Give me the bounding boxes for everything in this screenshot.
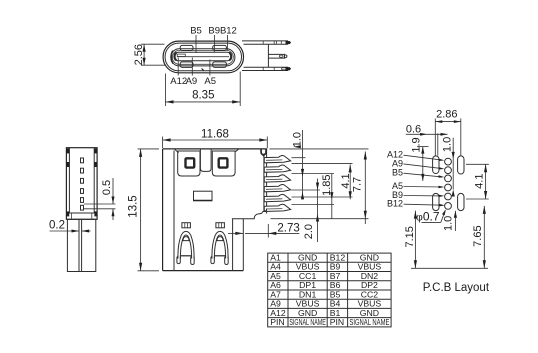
shell bottom rim [66,212,97,214]
pcb ext y199 [466,198,489,200]
ext line y190 [292,189,321,191]
svg-text:0.6: 0.6 [406,124,421,136]
mating slot outer [171,49,235,66]
dim 2.86 ext left [434,119,436,156]
svg-text:2.73: 2.73 [277,223,299,235]
right leg outer [212,231,228,258]
svg-text:7.15: 7.15 [404,226,416,247]
pad bottom-left [180,62,193,68]
top rail ticks [262,41,264,44]
dim 0.6 line [406,133,448,135]
ext line y163.4 [292,162,353,164]
dim 2.56 extension lines [141,43,165,45]
ext line y197 [292,196,353,198]
left flange square hole [186,158,195,167]
svg-text:2.86: 2.86 [436,108,457,120]
row line 3 [268,280,391,282]
shell inner wall left [68,148,70,213]
svg-text:B12: B12 [220,26,237,37]
svg-text:4.1: 4.1 [474,174,486,189]
body left edge [162,149,164,271]
dim 13.5 extension lines [138,148,160,150]
col line 1 [287,253,289,327]
row line 5 [268,298,391,300]
dim 8.35 line [166,101,241,103]
pad top-left [180,45,193,50]
crimp mark low-left [67,211,70,216]
dim 0.5 extension lines [84,203,116,205]
finger 3 [264,175,290,182]
dim 11.68 extension lines [162,137,164,149]
tongue left dark cap [175,53,177,60]
left leg outer [178,231,194,258]
tongue [174,52,231,61]
right leg crossbar [215,255,226,257]
finger 1 [264,156,290,163]
dim 2.73 line [245,232,299,234]
pcb bottom line [411,267,488,269]
slot 4 [81,189,84,194]
svg-text:PIN: PIN [330,317,344,327]
svg-text:A5: A5 [204,76,216,87]
hole A12 [445,158,452,165]
svg-text:1.0: 1.0 [291,132,303,147]
crimp mark top-right [94,148,97,153]
svg-text:0.5: 0.5 [101,180,113,195]
top corner tab [261,150,266,156]
inner left wall [173,151,175,271]
center pin line right [81,219,83,271]
slot 2 [81,168,84,173]
bottom right column left edge [232,219,234,271]
ext line y173.5 [292,173,335,175]
dim 1.0 underline arrow [293,145,301,148]
slot pad upper-left [433,156,439,174]
dim 1.9 ext [417,146,429,148]
vline x302.5 [302,130,304,198]
svg-text:7.7: 7.7 [352,177,364,192]
row line 1 [268,261,391,263]
dim 8.35 extension lines [165,74,167,107]
svg-text:B9: B9 [208,26,220,37]
dim 4.1 pcb line [485,164,487,199]
shell bottom seam mark [202,69,204,71]
bottom rail tip [286,67,292,71]
row line 7 [268,317,391,319]
shell outline [66,148,97,220]
left leg dome [183,237,189,241]
ext line y204.5 [292,204,335,206]
dim 1.0 top line [452,138,454,190]
right leg left foot [211,257,214,264]
pad bottom-right [213,62,227,68]
top rail tip [286,41,292,45]
finger 2 [264,165,290,172]
tongue mid line [177,56,229,58]
crimp mark mid-left [67,162,70,167]
leader B9 [404,195,443,197]
connector shell outer stadium [163,41,243,73]
dim 1.9 line [422,147,424,181]
crimp mark low-right [94,211,97,216]
middle tab [200,150,211,172]
dim 2.86 line [435,121,461,123]
hole A5 [445,184,452,191]
finger 4 [264,185,290,192]
cell rect above left leg [182,223,191,228]
svg-text:A9: A9 [186,76,198,87]
finger 5 [264,194,290,201]
slot 1 [81,158,84,163]
top rail [242,40,288,42]
svg-text:11.68: 11.68 [201,128,229,140]
row line 4 [268,289,391,291]
staircase step [232,209,267,219]
right flange [212,151,235,176]
leader B12 [404,204,443,205]
shell inner wall right [93,148,95,213]
ext line y218.7 [271,218,369,220]
dim 2.86 ext right [460,119,462,156]
vline x350.2 (4.1) [349,164,351,199]
dim phi0.7 leader [441,211,446,223]
col line 2 [326,253,328,327]
leader A9 [404,164,443,169]
dim 7.65 line [483,206,485,268]
svg-text:P.C.B Layout: P.C.B Layout [423,282,490,294]
body end cap line [267,44,269,67]
dim 7.15 line [414,211,416,269]
table frame [268,253,391,327]
svg-text:7.65: 7.65 [472,225,484,246]
svg-text:2.56: 2.56 [133,44,145,65]
svg-text:2.0: 2.0 [303,224,315,239]
hole B12 [445,203,452,210]
slot pad upper-right [458,156,464,174]
leader A9 [191,58,193,76]
svg-text:B5: B5 [392,168,403,178]
left leg right foot [191,257,195,265]
slot 3 [81,178,84,183]
crimp mark top-left [67,148,70,153]
bottom rail ticks [262,67,264,70]
bottom rail hole [281,68,286,70]
dim 11.68 line [163,139,268,141]
vline x363.5 (7.7) [364,152,366,225]
dim 1.0 bottom line [454,211,456,231]
leader A5 [209,60,211,76]
slot 6 [81,205,84,210]
hole A9 [445,167,452,174]
hole B9 [445,193,452,200]
left leg crossbar [181,255,192,257]
top-left chamfer [175,150,179,153]
right leg dome [217,237,223,241]
svg-text:8.35: 8.35 [192,90,214,102]
hole B5 [445,175,452,182]
dim 0.5 line with outside arrows [112,178,114,204]
tongue left pad [177,54,185,56]
vline x317.5 [317,179,319,243]
dim 2.86 ext left2 [437,133,439,155]
right wall inner [263,154,265,213]
pad top-right [213,45,227,50]
slot left dark cap [171,51,173,64]
plastic body [67,219,95,271]
crimp mark mid-right [94,162,97,167]
leader A12 [177,58,179,76]
dim 0.2 line [50,230,80,232]
svg-text:SIGNAL NAME: SIGNAL NAME [289,317,326,327]
top-right chamfer [235,149,238,152]
left leg left foot [177,257,180,264]
leader B5 [195,35,197,53]
body bottom edge [163,270,244,272]
rim ticks [71,214,73,219]
svg-text:SIGNAL NAME: SIGNAL NAME [349,317,389,327]
col line 3 [347,253,349,327]
middle small rect [194,191,213,201]
leader A12 [404,155,443,160]
svg-text:B12: B12 [387,199,403,209]
svg-text:φ0.7: φ0.7 [416,210,440,224]
svg-text:1.0: 1.0 [442,216,454,231]
dim phi0.7 underline [422,221,441,223]
middle pin [268,53,284,55]
slot pad lower-left [433,193,439,210]
row line 6 [268,307,391,309]
svg-text:B5: B5 [190,26,202,37]
right leg right foot [225,257,229,265]
vline x331.8 [331,174,333,219]
right flange square hole [219,158,228,167]
leader B9 [213,35,215,53]
dim 2.56 line [143,44,145,65]
bottom right column right edge [242,219,244,271]
row line 2 [268,271,391,273]
slot 5 [81,198,84,203]
ext line y157.7 [292,157,306,159]
leader A5 [404,186,443,189]
dim 2.73 ext tick [267,224,269,238]
svg-text:0.2: 0.2 [49,220,65,232]
slot pad lower-right [458,193,464,210]
left leg inner [180,235,191,259]
finger 6 [264,204,290,211]
dim 13.5 line [140,149,142,271]
leader B5 [404,173,443,177]
svg-text:1.0: 1.0 [442,137,454,152]
right leg inner [214,235,225,259]
center pin line left [78,219,80,271]
svg-text:1.9: 1.9 [410,137,422,152]
left flange [178,151,200,176]
svg-text:PIN: PIN [270,317,284,327]
right wall outer [266,150,268,213]
cell rect above right leg [216,223,225,228]
body top edge [163,148,268,150]
pcb ext y164.3 [466,163,489,165]
tongue right dark cap [229,53,231,60]
leader B12 [227,35,229,51]
mating slot inner [172,50,233,64]
svg-text:13.5: 13.5 [127,195,139,217]
ext line y149 right [270,148,369,150]
shell inner stadium [165,43,241,71]
bottom rail [242,70,288,72]
